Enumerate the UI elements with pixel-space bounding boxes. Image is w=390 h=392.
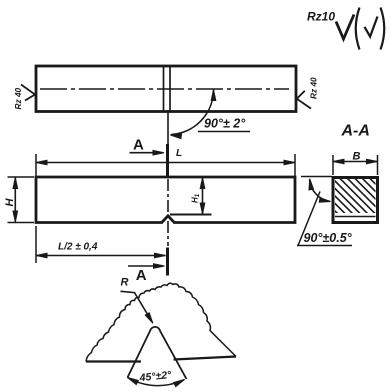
svg-text:H1: H1 (191, 193, 202, 203)
section line A: thin segment below bar (167, 112, 169, 144)
svg-text:A-A: A-A (341, 123, 370, 140)
dimension H: dimension line (14, 177, 16, 223)
svg-text:Rz 40: Rz 40 (309, 77, 319, 99)
svg-text:L/2 ± 0,4: L/2 ± 0,4 (58, 242, 98, 253)
dimension B: dimension line (333, 161, 378, 163)
svg-text:90°± 2°: 90°± 2° (204, 117, 246, 131)
front view: specimen outline with V-notch (36, 177, 295, 223)
angle 90°±0.5°: leader line (298, 192, 320, 246)
dimension B: left extension line (332, 155, 334, 175)
detail: notch V walls with rounded apex (128, 327, 187, 379)
parenthesis left (356, 8, 360, 50)
angle 90°±0.5°: arc (310, 180, 331, 202)
svg-text:R: R (121, 277, 129, 289)
top view: specimen bar outline (36, 66, 296, 112)
left surface roughness symbol (check mark) (21, 85, 35, 101)
angle 90°±0.5°: extension line from corner (301, 176, 332, 178)
detail: bottom edge left (86, 360, 141, 362)
front view: vertical centerline through notch (167, 179, 169, 246)
detail: angle dimension arc 45°±2° (128, 378, 185, 386)
dimension L/2: dimension line (36, 255, 166, 257)
svg-text:A: A (133, 136, 144, 153)
section A-A: hatched cut face (298, 174, 390, 224)
right surface roughness symbol (check mark) (297, 91, 311, 109)
svg-text:H: H (4, 198, 16, 207)
dimension L/2: left extension line (35, 226, 37, 263)
svg-text:L: L (176, 148, 182, 159)
section line A: upper thick stroke (166, 144, 169, 176)
section arrow A (bottom) (128, 265, 158, 267)
detail: bottom edge right (174, 357, 237, 360)
dimension H: top extension line (8, 176, 35, 178)
dimension L: dimension line (36, 162, 295, 164)
svg-text:A: A (136, 267, 147, 284)
top view: horizontal centerline (dash-dot) (40, 88, 289, 90)
dimension B: right extension line (377, 155, 379, 175)
leader R line (121, 291, 152, 320)
top view: notch edge line right (169, 67, 171, 112)
section A-A: square outline (333, 178, 378, 223)
dimension H1: dimension line (202, 178, 204, 215)
dimension H1: extension line at notch root (170, 214, 212, 216)
detail: wavy break line dome (86, 283, 236, 361)
section arrow A (top) (130, 152, 156, 154)
dimension L: left extension line (35, 154, 37, 176)
angle dimension arc 90°±2° (171, 90, 213, 135)
svg-text:B: B (353, 151, 361, 163)
section line A: lower thick stroke (166, 248, 169, 276)
svg-text:Rz 40: Rz 40 (13, 87, 23, 109)
top view: notch edge line left (163, 67, 165, 112)
svg-text:45°±2°: 45°±2° (138, 369, 173, 384)
svg-text:Rz10: Rz10 (307, 10, 335, 24)
parenthesis right (381, 8, 385, 50)
dimension L: right extension line (294, 154, 296, 176)
svg-text:90°±0.5°: 90°±0.5° (304, 231, 353, 245)
dimension H: bottom extension line (8, 222, 35, 224)
general roughness symbol (large check) (336, 15, 354, 40)
section A-A: notch root line (335, 216, 376, 218)
small check in parentheses (365, 17, 378, 37)
